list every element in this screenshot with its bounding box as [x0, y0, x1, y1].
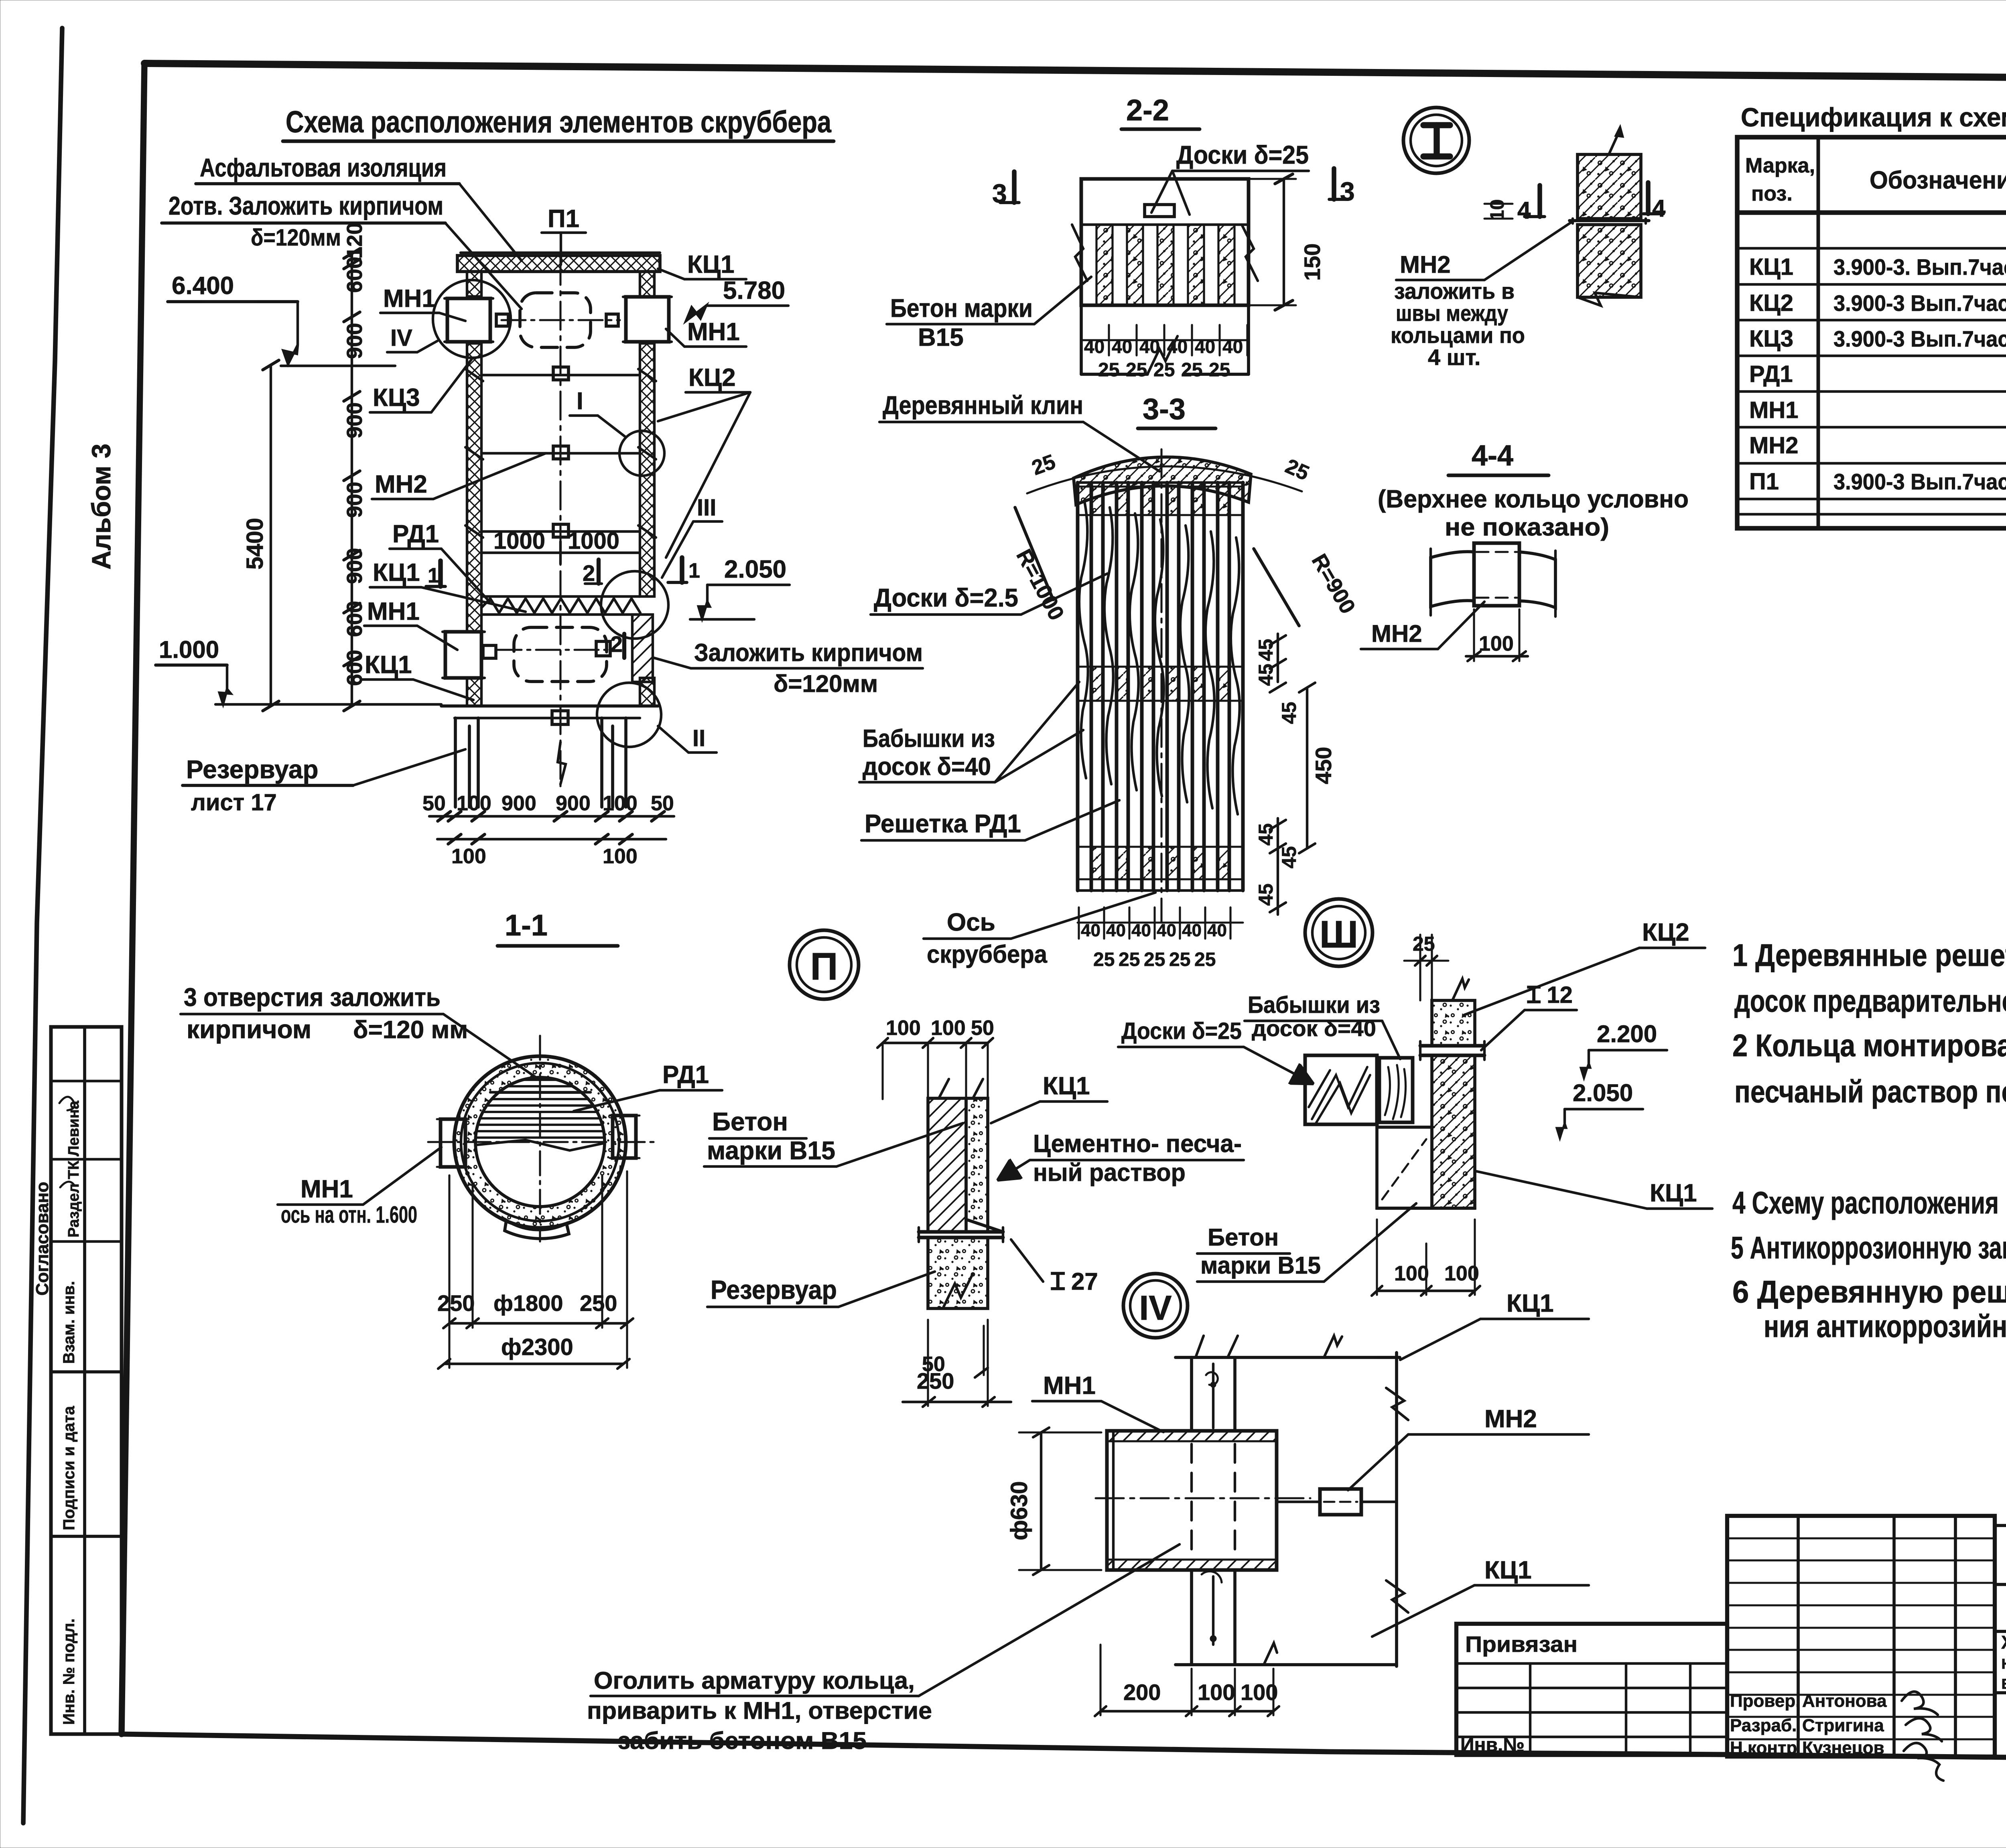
svg-text:приварить к МН1, отверстие: приварить к МН1, отверстие — [587, 1697, 932, 1724]
svg-text:100: 100 — [931, 1016, 966, 1040]
stamp signature squiggles — [59, 1097, 75, 1187]
svg-text:КЦ1: КЦ1 — [365, 651, 412, 679]
center vertical dash-dot axis — [559, 257, 561, 786]
detail IV pipe MN1 outer — [1107, 1431, 1277, 1570]
svg-text:25: 25 — [1169, 949, 1190, 970]
detail III top break arrow — [1452, 979, 1469, 1000]
svg-text:Доски δ=2.5: Доски δ=2.5 — [874, 583, 1018, 612]
svg-text:5 Антикоррозионную зашиту скру: 5 Антикоррозионную зашиту скруббера см. … — [1731, 1230, 2006, 1265]
svg-text:КЦ3: КЦ3 — [373, 384, 420, 412]
svg-text:6 Деревянную решетку установит: 6 Деревянную решетку установить после вы… — [1732, 1274, 2006, 1309]
svg-text:Инв.№: Инв.№ — [1460, 1734, 1525, 1756]
svg-text:2: 2 — [583, 560, 595, 586]
joint ticks 3 — [465, 525, 483, 538]
label KC1 leader to lattice — [421, 587, 526, 612]
3-3 left radius line R1000 — [1015, 507, 1053, 600]
svg-text:МН1: МН1 — [383, 285, 436, 312]
svg-text:4: 4 — [1517, 197, 1531, 224]
svg-text:Инв. № подл.: Инв. № подл. — [60, 1619, 78, 1725]
zalozhit underline + leader — [691, 667, 923, 669]
2-2 break marks right — [1242, 225, 1258, 281]
spec table outer frame — [1737, 137, 2006, 528]
signatures — [1902, 1692, 1943, 1781]
svg-text:Доски δ=25: Доски δ=25 — [1121, 1018, 1242, 1044]
svg-text:КЦ1: КЦ1 — [1749, 254, 1793, 280]
svg-text:Привязан: Привязан — [1465, 1631, 1578, 1657]
svg-text:25: 25 — [1126, 359, 1147, 381]
svg-text:40: 40 — [1157, 921, 1176, 940]
svg-text:900: 900 — [556, 792, 591, 815]
svg-text:Провер.: Провер. — [1730, 1691, 1800, 1711]
svg-text:Бетон марки: Бетон марки — [890, 294, 1033, 323]
1-1 top brick chord — [490, 1091, 591, 1093]
svg-text:КЦ1: КЦ1 — [1484, 1556, 1532, 1584]
2-2 lower band — [1081, 304, 1249, 307]
detail III circle at lattice right — [601, 571, 668, 639]
center axis break mark — [558, 742, 566, 784]
right wall hatched segments — [640, 272, 654, 296]
svg-text:100: 100 — [603, 845, 638, 868]
svg-text:2.050: 2.050 — [724, 556, 786, 583]
block top arrow break — [1609, 128, 1622, 154]
svg-text:не показано): не показано) — [1445, 513, 1609, 541]
svg-text:КЦ1: КЦ1 — [1507, 1290, 1554, 1317]
svg-text:Бетон: Бетон — [712, 1107, 788, 1136]
svg-text:забить бетоном В15: забить бетоном В15 — [618, 1727, 867, 1754]
detail IV circle label — [1123, 1274, 1188, 1338]
3-3 arc slab top — [1074, 457, 1251, 505]
left stamp column outer box — [51, 1027, 122, 1734]
450 dim — [1306, 688, 1308, 848]
svg-text:100: 100 — [451, 845, 486, 868]
upper MN1 box left — [447, 298, 490, 342]
svg-text:3.900-3 Вып.7часть 1: 3.900-3 Вып.7часть 1 — [1833, 469, 2006, 494]
svg-text:КЦ1: КЦ1 — [1650, 1179, 1697, 1207]
svg-text:2.200: 2.200 — [1597, 1020, 1657, 1047]
svg-text:45: 45 — [1278, 846, 1300, 868]
svg-text:марки В15: марки В15 — [707, 1136, 835, 1165]
svg-text:МН1: МН1 — [300, 1175, 353, 1203]
2-2 break marks left — [1072, 225, 1087, 281]
svg-text:δ=120мм: δ=120мм — [774, 670, 878, 697]
reservoir shaft right walls — [600, 718, 603, 807]
2.050 arrow — [698, 602, 710, 619]
svg-text:2: 2 — [610, 631, 623, 657]
svg-text:Кузнецов: Кузнецов — [1802, 1738, 1884, 1758]
svg-text:900: 900 — [343, 323, 367, 359]
detail III wall strip upper (KC2) — [1432, 1000, 1475, 1046]
1-1 ring fill stipple (annulus) — [454, 1056, 626, 1228]
svg-text:1.000: 1.000 — [159, 636, 219, 663]
svg-text:КЦ1: КЦ1 — [687, 251, 735, 278]
svg-text:900: 900 — [343, 482, 367, 518]
svg-text:100: 100 — [1241, 1680, 1278, 1705]
svg-text:3: 3 — [1340, 176, 1355, 206]
svg-text:водительностью 50кг хлора в ча: водительностью 50кг хлора в час — [2001, 1672, 2006, 1693]
elevation bottom dim line 2 — [437, 838, 666, 840]
floor joint line and clamp — [455, 717, 640, 719]
detail IV top wall line — [1176, 1356, 1400, 1359]
3-3 top/bottom edges — [1078, 481, 1243, 484]
svg-text:50: 50 — [971, 1016, 994, 1040]
svg-text:450: 450 — [1311, 747, 1336, 784]
svg-text:40: 40 — [1195, 336, 1215, 357]
svg-text:Спецификация к схеме расположе: Спецификация к схеме расположения элемен… — [1741, 102, 2006, 132]
svg-text:1: 1 — [428, 564, 439, 587]
pipe wall hatched top — [1107, 1431, 1277, 1441]
svg-text:ния питьевых и сточных вод про: ния питьевых и сточных вод произ — [2001, 1652, 2006, 1673]
asfalt leader — [459, 184, 522, 261]
svg-text:100: 100 — [1394, 1262, 1429, 1285]
KC2 leaders — [658, 392, 750, 421]
svg-text:Взам. инв.: Взам. инв. — [60, 1281, 78, 1364]
svg-text:40: 40 — [1207, 921, 1227, 940]
4-4 MN2 block — [1474, 543, 1519, 606]
svg-text:I: I — [577, 387, 583, 414]
svg-text:600: 600 — [343, 257, 367, 293]
svg-text:ния антикоррозийной зашиты скр: ния антикоррозийной зашиты скруббера. — [1764, 1308, 2006, 1344]
joint ticks 1 — [465, 369, 483, 381]
svg-text:Деревянный клин: Деревянный клин — [883, 391, 1083, 420]
wood grain chevrons — [1309, 1067, 1370, 1123]
svg-text:40: 40 — [1131, 921, 1151, 940]
svg-text:Альбом 3: Альбом 3 — [86, 444, 116, 570]
3-3 center axis — [1160, 449, 1162, 923]
4-4 ring band left — [1431, 552, 1474, 607]
lower fixator squares — [483, 645, 496, 658]
svg-text:25: 25 — [1181, 359, 1202, 381]
upper fixator squares — [496, 314, 508, 326]
detail III I-beam 12 — [1420, 1044, 1484, 1048]
block bottom break — [1578, 293, 1641, 306]
ring joint line 2 — [481, 452, 640, 454]
svg-text:3.900-3 Вып.7часть 1: 3.900-3 Вып.7часть 1 — [1833, 326, 2006, 351]
svg-text:2 Кольца монтировать на свежеу: 2 Кольца монтировать на свежеуложенный ц… — [1732, 1028, 2006, 1063]
3-3 bottom ticks — [1078, 921, 1243, 923]
svg-text:МН2: МН2 — [1484, 1405, 1537, 1433]
svg-text:Бабышки из: Бабышки из — [1248, 992, 1380, 1018]
spec table row lines — [1737, 210, 2006, 215]
svg-text:МН1: МН1 — [367, 598, 420, 625]
right ring edge vertical — [1395, 1353, 1398, 1666]
svg-text:IV: IV — [390, 325, 412, 351]
1-1 left MN1 stub — [441, 1119, 465, 1167]
svg-text:поз.: поз. — [1751, 182, 1793, 205]
label P1 underline and leader — [542, 231, 586, 234]
svg-text:6.400: 6.400 — [172, 272, 234, 300]
4-4 end ticks — [1429, 549, 1432, 615]
left wall hatched segments — [467, 272, 481, 296]
upper center dash-dot axis horizontal — [501, 319, 620, 321]
1-1 right MN1 stub — [613, 1116, 636, 1158]
svg-text:25: 25 — [1098, 359, 1119, 381]
svg-text:40: 40 — [1084, 336, 1105, 357]
svg-text:ф1800: ф1800 — [493, 1290, 563, 1316]
svg-text:1000: 1000 — [493, 528, 545, 554]
lattice band RD1 chevrons — [481, 595, 640, 598]
svg-text:25: 25 — [1194, 949, 1216, 970]
svg-text:Оголить арматуру кольца,: Оголить арматуру кольца, — [594, 1667, 915, 1694]
svg-text:КЦ2: КЦ2 — [1749, 290, 1793, 316]
detail IV circle on upper-left MN1 — [433, 280, 511, 358]
sheet title underline — [283, 140, 834, 143]
svg-text:Резервуар: Резервуар — [711, 1275, 837, 1304]
1-1 center axes — [539, 1036, 541, 1241]
title block small grid — [1727, 1516, 1995, 1757]
frame bottom border — [122, 1734, 2006, 1762]
svg-text:25: 25 — [1093, 949, 1115, 970]
2-2 top notch — [1145, 205, 1174, 217]
lower MN1 box left — [445, 632, 481, 678]
ring joint clamp 3 — [553, 524, 569, 537]
lower dashed rounded square — [514, 627, 607, 682]
svg-text:песчаный раствор после установ: песчаный раствор после установки фиксато… — [1734, 1074, 2006, 1109]
svg-text:100: 100 — [886, 1016, 921, 1040]
svg-text:П1: П1 — [1749, 469, 1779, 495]
top horizontal line breaks — [1196, 1336, 1204, 1357]
1-1 waterline slant — [477, 1140, 604, 1150]
svg-text:4-4: 4-4 — [1472, 440, 1513, 472]
svg-text:IV: IV — [1139, 1289, 1172, 1327]
detail II mortar strip — [966, 1098, 1003, 1232]
privyazan block — [1456, 1624, 1727, 1755]
svg-text:100: 100 — [457, 792, 491, 815]
elevation top slab P1 thin top line — [461, 252, 660, 254]
svg-text:МН2: МН2 — [375, 471, 427, 498]
left dim chain vertical — [351, 254, 353, 706]
svg-text:Подписи и дата: Подписи и дата — [60, 1406, 78, 1530]
svg-text:КЦ3: КЦ3 — [1749, 326, 1793, 352]
svg-text:Асфальтовая изоляция: Асфальтовая изоляция — [200, 153, 447, 182]
svg-text:Заложить кирпичом: Заложить кирпичом — [694, 639, 923, 667]
3-3 lattice boards — [1076, 483, 1080, 891]
svg-text:швы между: швы между — [1396, 300, 1508, 326]
svg-text:1000: 1000 — [568, 528, 619, 554]
150 dim right — [1283, 179, 1285, 305]
dim f630 — [1040, 1432, 1042, 1570]
svg-text:Хлораторная для обеззаражива: Хлораторная для обеззаражива — [2001, 1632, 2006, 1653]
svg-text:50: 50 — [651, 792, 674, 815]
pipe wall hatched bottom — [1107, 1560, 1277, 1570]
svg-text:Стригина: Стригина — [1802, 1716, 1884, 1735]
svg-text:40: 40 — [1167, 336, 1188, 357]
svg-text:РД1: РД1 — [392, 520, 439, 548]
rezervuar leader — [353, 749, 465, 785]
svg-text:3.900-3. Вып.7часть1: 3.900-3. Вып.7часть1 — [1833, 254, 2006, 280]
svg-text:40: 40 — [1182, 921, 1202, 940]
svg-text:Решетка РД1: Решетка РД1 — [865, 809, 1021, 838]
svg-text:40: 40 — [1112, 336, 1132, 357]
MN2 underline + leader — [1396, 279, 1484, 281]
elevation bottom dim line 1 — [429, 815, 674, 818]
3-3 right radius line R900 — [1254, 549, 1299, 626]
lower right wall stub — [640, 678, 654, 706]
3-3 right dim chain 45s — [1277, 634, 1279, 682]
right lower brick block (zalozhit kirpichom) — [632, 615, 653, 682]
svg-text:Бабышки из: Бабышки из — [863, 725, 995, 753]
svg-text:(Верхнее кольцо условно: (Верхнее кольцо условно — [1378, 485, 1689, 513]
svg-text:45: 45 — [1255, 883, 1277, 906]
svg-text:МН1: МН1 — [1043, 1372, 1096, 1400]
svg-text:3-3: 3-3 — [1143, 392, 1186, 426]
svg-text:III: III — [697, 495, 716, 521]
detail IV bottom line — [1176, 1663, 1397, 1666]
floor line — [441, 704, 658, 708]
joint ticks 2 — [465, 447, 483, 459]
detail I upper ring block — [1578, 154, 1641, 219]
svg-text:МН1: МН1 — [1749, 397, 1798, 423]
svg-text:Цементно- песча-: Цементно- песча- — [1033, 1130, 1242, 1158]
svg-text:45: 45 — [1255, 639, 1277, 661]
ring joint line 3 — [481, 530, 640, 533]
svg-text:100: 100 — [1479, 632, 1514, 655]
1.000 arrow — [219, 689, 231, 704]
pipe left end cap — [1112, 1431, 1115, 1570]
svg-text:40: 40 — [1222, 336, 1243, 357]
svg-text:лист 17: лист 17 — [191, 789, 277, 815]
svg-text:марки В15: марки В15 — [1200, 1252, 1321, 1279]
svg-text:5.780: 5.780 — [723, 277, 785, 304]
lower center dash-dot axis horizontal — [497, 649, 614, 651]
svg-text:4: 4 — [1652, 195, 1666, 222]
svg-text:2-2: 2-2 — [1126, 93, 1169, 127]
3-3 wood grain waves — [1079, 501, 1088, 778]
ring joint line 1 — [481, 374, 640, 376]
detail I circle on right wall — [619, 431, 664, 476]
detail IV lower wall verticals — [1190, 1570, 1193, 1665]
stamp column middle vertical — [83, 1027, 86, 1734]
MN2 fixator (IV) — [1320, 1489, 1361, 1515]
svg-text:досок δ=40: досок δ=40 — [863, 753, 991, 781]
svg-text:Резервуар: Резервуар — [186, 755, 319, 784]
svg-text:25: 25 — [1153, 359, 1175, 381]
svg-text:ф2300: ф2300 — [501, 1334, 573, 1360]
6.400 arrow — [283, 345, 298, 364]
svg-text:Ɪ 27: Ɪ 27 — [1051, 1268, 1098, 1295]
svg-text:досок предварительно пропитанн: досок предварительно пропитанных смолой … — [1734, 983, 2006, 1018]
svg-text:МН2: МН2 — [1749, 432, 1798, 458]
svg-text:4 Схему расположения скрубберо: 4 Схему расположения скрубберов см. лист… — [1732, 1185, 2006, 1220]
svg-text:Ɪ 12: Ɪ 12 — [1527, 982, 1573, 1008]
ring joint clamp 1 — [553, 367, 569, 380]
svg-text:3 отверстия заложить: 3 отверстия заложить — [184, 983, 441, 1012]
detail III circle big — [1305, 899, 1373, 966]
svg-text:45: 45 — [1255, 663, 1277, 686]
lower rebar with hook — [1212, 1576, 1214, 1645]
svg-text:150: 150 — [1299, 243, 1325, 281]
svg-text:КЦ2: КЦ2 — [688, 364, 736, 392]
svg-text:Ш: Ш — [1320, 913, 1358, 956]
2-2 lower band break — [1147, 336, 1178, 374]
svg-text:МН1: МН1 — [687, 318, 740, 346]
2otv leader — [445, 223, 522, 309]
ring joint clamp 2 — [553, 446, 569, 459]
section mark 1 right of 1000 dim — [680, 558, 684, 582]
svg-text:900: 900 — [343, 402, 367, 438]
svg-text:10: 10 — [1487, 199, 1508, 221]
elevation top slab P1 hatched band — [457, 256, 660, 272]
svg-text:40: 40 — [1106, 921, 1126, 940]
detail III lower-left white block — [1377, 1127, 1432, 1208]
svg-text:600: 600 — [343, 601, 367, 637]
stamp column row lines — [51, 1080, 122, 1082]
svg-text:Разраб.: Разраб. — [1730, 1716, 1797, 1735]
frame left border — [122, 63, 144, 1734]
svg-text:Согласовано: Согласовано — [32, 1182, 52, 1296]
svg-text:КЦ2: КЦ2 — [1642, 919, 1689, 946]
detail II lower break — [943, 1274, 973, 1308]
svg-text:δ=120мм: δ=120мм — [251, 225, 341, 251]
5400 dim line — [270, 365, 272, 706]
1-1 lattice horizontal lines — [522, 1079, 558, 1081]
section mark 1 left — [438, 561, 443, 586]
svg-text:1-1: 1-1 — [505, 909, 548, 942]
svg-text:250: 250 — [437, 1290, 475, 1316]
detail II lower block (rezervuar wall) — [928, 1237, 988, 1308]
left scan edge line — [23, 28, 62, 1823]
1-1 outer ring circles — [454, 1056, 626, 1228]
svg-text:Ось: Ось — [947, 909, 995, 936]
4-4 ring band right — [1519, 552, 1555, 608]
detail II I-beam flange — [919, 1230, 1003, 1234]
detail III top guide lines + 25 dim — [1419, 935, 1421, 1000]
svg-text:250: 250 — [580, 1290, 617, 1316]
detail II wall upper: concrete B15 — [928, 1098, 966, 1232]
svg-text:II: II — [692, 725, 705, 751]
svg-text:120: 120 — [343, 223, 367, 259]
boards and gaps — [1096, 225, 1113, 305]
detail II extension verticals — [881, 1043, 883, 1099]
detail I roman numeral — [1423, 122, 1450, 128]
5.780 arrow — [686, 306, 706, 321]
svg-text:МН2: МН2 — [1400, 251, 1451, 278]
svg-text:В15: В15 — [918, 324, 964, 351]
svg-text:2.050: 2.050 — [1573, 1079, 1633, 1106]
svg-text:скруббера: скруббера — [927, 941, 1047, 968]
svg-text:25: 25 — [1119, 949, 1140, 970]
svg-text:Доски δ=25: Доски δ=25 — [1176, 140, 1309, 169]
svg-text:ф630: ф630 — [1006, 1481, 1032, 1540]
svg-text:1 Деревянные решетки изготавл: 1 Деревянные решетки изготавливать из со… — [1732, 937, 2006, 973]
detail IV upper wall verticals — [1190, 1357, 1193, 1431]
svg-text:досок δ=40: досок δ=40 — [1252, 1016, 1376, 1041]
svg-text:40: 40 — [1081, 921, 1100, 940]
svg-text:25: 25 — [1209, 359, 1230, 381]
svg-text:КЦ1: КЦ1 — [1043, 1072, 1090, 1100]
svg-text:25: 25 — [1413, 933, 1435, 955]
svg-text:Н.контр: Н.контр — [1730, 1738, 1797, 1758]
reservoir shaft left walls — [454, 718, 457, 807]
upper MN1 box right — [626, 297, 669, 342]
pipe center axis — [1096, 1497, 1310, 1499]
left dim chain ticks — [344, 249, 360, 258]
svg-text:КЦ1: КЦ1 — [373, 559, 420, 586]
1-1 bottom stub — [505, 1220, 569, 1239]
upper dashed rounded square (hatch opening) — [520, 293, 591, 347]
svg-text:4 шт.: 4 шт. — [1428, 345, 1480, 370]
svg-text:5400: 5400 — [242, 518, 268, 570]
arc dim curves — [1027, 467, 1302, 493]
svg-text:Антонова: Антонова — [1802, 1691, 1887, 1711]
svg-text:40: 40 — [1139, 336, 1160, 357]
doski leaders — [1151, 171, 1172, 213]
detail III wood block with grain — [1305, 1055, 1377, 1124]
detail II top breaks — [939, 1079, 983, 1098]
svg-text:кольцами по: кольцами по — [1391, 323, 1525, 348]
title block tp row — [1995, 1524, 2006, 1527]
svg-text:45: 45 — [1255, 823, 1277, 846]
detail I lower ring block — [1578, 225, 1641, 297]
